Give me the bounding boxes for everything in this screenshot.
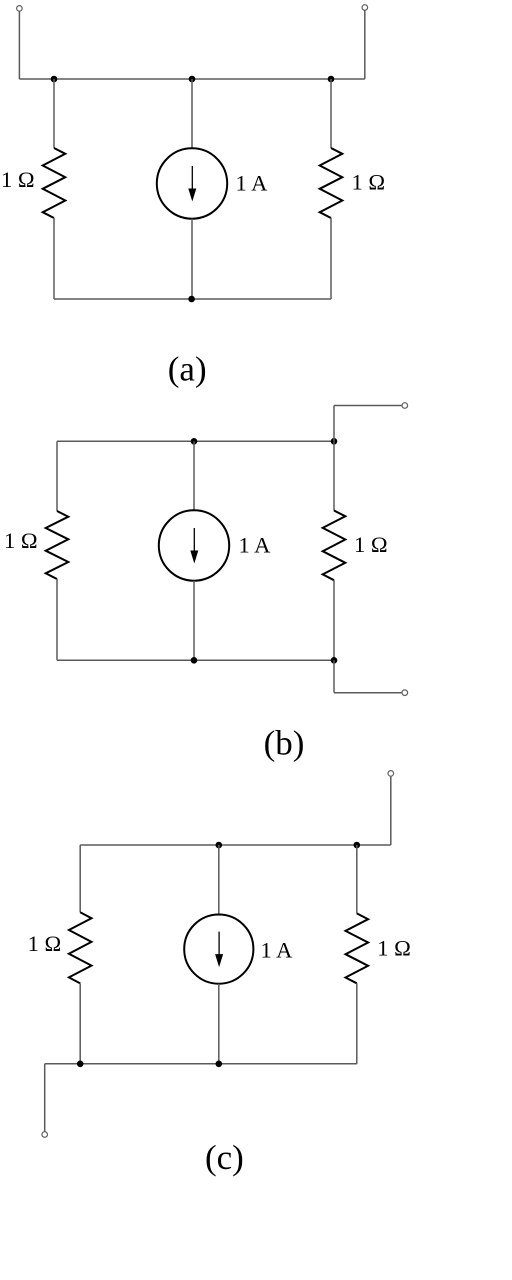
terminal T5 (top-right open circle, circuit c) xyxy=(388,771,394,777)
node junction dot middle on top rail (a) xyxy=(189,76,196,83)
svg-text:1 Ω: 1 Ω xyxy=(352,170,386,195)
wire from resistor R5 down to bottom rail (c) xyxy=(79,983,81,1063)
svg-text:1 Ω: 1 Ω xyxy=(4,528,38,553)
resistor R4 1 ohm (circuit b, right) xyxy=(323,511,346,581)
wire from top rail up to top terminal stub (b) xyxy=(333,406,335,442)
wire from resistor R4 down to bottom rail (b) xyxy=(333,580,335,660)
svg-text:(a): (a) xyxy=(168,349,207,388)
resistor R1 1 ohm (circuit a, left) xyxy=(43,148,66,218)
figure label (b) xyxy=(264,724,305,763)
wire bottom rail (c) xyxy=(45,1063,357,1065)
wire from current source I1 down to bottom rail (a) xyxy=(191,219,193,299)
wire from current source I3 down to bottom rail (c) xyxy=(218,984,220,1064)
terminal T3 (top-right open circle, circuit b) xyxy=(402,403,408,409)
svg-text:(b): (b) xyxy=(264,724,305,763)
resistor R5 1 ohm (circuit c, left) xyxy=(69,912,92,983)
value label 1 ohm for R3 (b) xyxy=(4,528,38,553)
wire from top rail down to resistor R3 (b, left) xyxy=(56,441,58,511)
value label 1 A for I1 (a) xyxy=(236,171,269,196)
wire from bottom rail down to bottom terminal stub (b) xyxy=(333,660,335,692)
node junction dot right on top rail (c) xyxy=(354,842,361,849)
wire from bottom rail down to terminal T6 (c) xyxy=(44,1064,46,1132)
node junction dot middle on top rail (c) xyxy=(216,842,223,849)
wire from terminal T5 down to top rail (c) xyxy=(390,776,392,845)
node junction dot middle on top rail (b) xyxy=(191,438,198,445)
value label 1 ohm for R6 (c) xyxy=(377,936,411,961)
figure label (a) xyxy=(168,349,207,388)
wire bottom rail (b) xyxy=(57,659,334,661)
node junction dot right on bottom rail (b) xyxy=(331,657,338,664)
wire from top rail down to current source I2 (b) xyxy=(193,441,195,510)
svg-text:1 A: 1 A xyxy=(236,171,269,196)
current source I1 1 A (circuit a): circle xyxy=(157,148,227,218)
wire top rail (b) xyxy=(57,440,334,442)
wire from top rail down to resistor R6 (c, right) xyxy=(356,845,358,913)
wire bottom terminal stub horizontal (b) xyxy=(334,692,402,694)
wire from top rail down to current source I3 (c) xyxy=(218,845,220,915)
wire from top rail down to resistor R2 (a, right) xyxy=(330,79,332,148)
svg-text:1 Ω: 1 Ω xyxy=(28,931,62,956)
value label 1 A for I2 (b) xyxy=(239,533,272,558)
node junction dot middle on bottom rail (c) xyxy=(216,1061,223,1068)
svg-text:1 Ω: 1 Ω xyxy=(377,936,411,961)
wire from current source I2 down to bottom rail (b) xyxy=(193,581,195,661)
resistor R6 1 ohm (circuit c, right) xyxy=(346,913,369,983)
current source I2 1 A (circuit b): circle xyxy=(159,510,229,580)
wire from resistor R6 down to bottom rail (c) xyxy=(356,983,358,1064)
current source I3 arrow (circuit c) xyxy=(215,932,223,968)
resistor R2 1 ohm (circuit a, right) xyxy=(320,148,343,218)
current source I2 arrow (circuit b) xyxy=(190,528,198,564)
current source I1 arrow (circuit a) xyxy=(188,166,196,202)
node junction dot on bottom rail (a) xyxy=(188,296,195,303)
value label 1 ohm for R5 (c) xyxy=(28,931,62,956)
value label 1 A for I3 (c) xyxy=(261,938,294,963)
wire bottom rail (a) xyxy=(54,298,331,300)
svg-text:1 A: 1 A xyxy=(239,533,272,558)
wire top rail (a) xyxy=(19,78,364,80)
wire from resistor R1 down to bottom rail (a) xyxy=(53,218,55,299)
svg-text:1 Ω: 1 Ω xyxy=(354,532,388,557)
wire top rail (c) xyxy=(80,844,391,846)
wire from resistor R3 down to bottom rail (b) xyxy=(56,579,58,660)
node junction dot right on top rail (a) xyxy=(328,76,335,83)
svg-text:1 Ω: 1 Ω xyxy=(1,167,35,192)
node junction dot middle on bottom rail (b) xyxy=(191,657,198,664)
wire from resistor R2 down to bottom rail (a) xyxy=(330,218,332,299)
node junction dot left on top rail (a) xyxy=(51,76,58,83)
wire from terminal T1 down to top rail (a) xyxy=(18,11,20,79)
wire from top rail down to current source I1 (a) xyxy=(191,79,193,148)
terminal T4 (bottom-right open circle, circuit b) xyxy=(402,690,408,696)
resistor R3 1 ohm (circuit b, left) xyxy=(46,511,69,579)
wire from top rail down to resistor R5 (c, left) xyxy=(79,845,81,912)
terminal T6 (bottom-left open circle, circuit c) xyxy=(42,1132,48,1138)
svg-text:1 A: 1 A xyxy=(261,938,294,963)
value label 1 ohm for R4 (b) xyxy=(354,532,388,557)
node junction dot left on bottom rail (c) xyxy=(77,1061,84,1068)
terminal T1 (top-left open circle, circuit a) xyxy=(17,6,23,12)
value label 1 ohm for R1 (a) xyxy=(1,167,35,192)
value label 1 ohm for R2 (a) xyxy=(352,170,386,195)
wire top terminal stub horizontal (b) xyxy=(334,405,402,407)
terminal T2 (top-right open circle, circuit a) xyxy=(362,5,368,11)
figure label (c) xyxy=(205,1138,244,1177)
node junction dot right on top rail (b) xyxy=(331,438,338,445)
wire from top rail down to resistor R4 (b, right) xyxy=(333,441,335,510)
svg-text:(c): (c) xyxy=(205,1138,244,1177)
current source I3 1 A (circuit c): circle xyxy=(184,915,253,984)
wire from top rail down to resistor R1 (a, left) xyxy=(53,79,55,148)
wire from terminal T2 down to top rail (a) xyxy=(364,10,366,79)
